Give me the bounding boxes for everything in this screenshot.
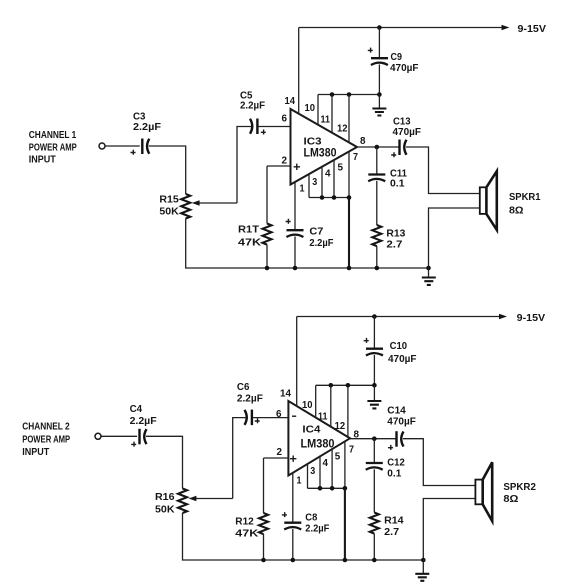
input terminal ch1	[99, 143, 105, 149]
node bus junction C9	[377, 92, 382, 97]
op-amp IC4 LM380	[288, 401, 350, 476]
node gnd dot pin7	[347, 266, 352, 271]
pin 12 stub	[348, 95, 350, 143]
svg-text:1: 1	[300, 183, 305, 195]
node gnd dot speaker	[426, 266, 431, 271]
svg-text:2.2µF: 2.2µF	[309, 237, 334, 249]
wire C7 to ground bus	[294, 237, 296, 269]
svg-text:6: 6	[276, 408, 282, 420]
pin 12 stub	[347, 385, 349, 436]
node bus junction C10	[372, 383, 377, 388]
svg-text:CHANNEL 1: CHANNEL 1	[29, 129, 77, 141]
pins 3-5-7 bus ch2	[308, 487, 345, 489]
capacitor C8	[284, 522, 301, 524]
wire R12 to ground bus	[263, 534, 265, 560]
svg-text:14: 14	[285, 95, 296, 107]
capacitor C5	[250, 119, 252, 134]
node gnd dot C7	[293, 266, 298, 271]
svg-text:5: 5	[338, 161, 344, 173]
pin 1 wire to C7	[294, 182, 296, 229]
svg-text:8: 8	[360, 135, 366, 147]
svg-text:2.2µF: 2.2µF	[240, 100, 266, 112]
node bus junction 12	[346, 383, 351, 388]
svg-text:IC3: IC3	[304, 136, 322, 148]
wire C13 to speaker top	[406, 147, 480, 194]
svg-text:2.2µF: 2.2µF	[133, 121, 162, 133]
svg-text:R16: R16	[155, 491, 175, 503]
pin 2 wire	[264, 457, 289, 459]
node rail-C10 junction	[372, 314, 377, 319]
pin 10 stub	[317, 95, 319, 125]
wire C8 to ground bus	[292, 529, 294, 560]
supply arrow ch1	[502, 25, 510, 31]
potentiometer R15	[181, 194, 190, 219]
capacitor C9	[371, 57, 388, 59]
node bus junction 11	[330, 92, 335, 97]
node output junction	[372, 436, 377, 441]
wire C12 to R14	[373, 469, 375, 512]
svg-text:11: 11	[321, 113, 331, 125]
svg-text:8: 8	[354, 428, 360, 440]
resistor R14 2.7	[370, 513, 379, 534]
capacitor C7	[287, 229, 304, 231]
pin 14 wire to +V rail	[298, 28, 300, 114]
wire rail to C10	[373, 317, 375, 348]
+V rail ch2	[297, 316, 500, 318]
svg-text:10: 10	[302, 399, 313, 411]
svg-text:4: 4	[323, 457, 329, 469]
pin 14 wire to +V rail	[296, 317, 298, 407]
speaker SPKR1	[480, 187, 487, 214]
wire R14 to ground bus	[373, 534, 375, 560]
wire pin2 down to R11	[266, 166, 268, 224]
svg-text:R1T: R1T	[238, 224, 260, 236]
svg-text:47K: 47K	[238, 237, 261, 249]
node bus dot pin7	[347, 195, 352, 200]
plus mark pin 2 input	[290, 456, 296, 462]
svg-text:SPKR2: SPKR2	[503, 481, 536, 493]
resistor R11 47K	[263, 224, 272, 245]
svg-text:470µF: 470µF	[388, 353, 417, 365]
pin 11 stub	[330, 385, 332, 426]
svg-text:2.7: 2.7	[386, 239, 402, 251]
wire speaker bottom to ground	[429, 208, 480, 268]
svg-text:9-15V: 9-15V	[518, 23, 547, 35]
svg-text:0.1: 0.1	[387, 468, 401, 480]
node gnd dot R14	[372, 558, 377, 563]
svg-text:C4: C4	[130, 403, 143, 415]
svg-text:C7: C7	[309, 226, 323, 238]
pin 5 stub	[331, 448, 333, 488]
capacitor C4	[138, 429, 140, 445]
pins 3-5-7 bus ch1	[309, 197, 349, 199]
svg-text:47K: 47K	[235, 528, 258, 540]
wire wiper up to C6	[233, 418, 246, 499]
pin 7 stub	[348, 152, 350, 198]
svg-text:2.7: 2.7	[384, 526, 399, 538]
wire C11 to R13	[376, 181, 378, 225]
svg-text:CHANNEL 2: CHANNEL 2	[22, 420, 70, 432]
pin 3 stub	[307, 463, 309, 488]
wire C3 to R15 corner	[149, 146, 186, 194]
svg-text:12: 12	[335, 420, 346, 432]
node bus dot pin4	[318, 486, 323, 491]
+V rail ch1	[299, 27, 502, 29]
ground below C9	[378, 95, 380, 109]
pin 3 stub	[308, 174, 310, 197]
capacitor C13	[398, 140, 400, 156]
svg-text:50K: 50K	[159, 206, 179, 218]
wire input to C4	[101, 435, 137, 437]
wire C4 to R16 corner	[146, 436, 183, 488]
svg-text:10: 10	[305, 102, 316, 114]
svg-text:4: 4	[325, 168, 331, 180]
supply arrow ch2	[499, 314, 507, 320]
input terminal ch2	[95, 433, 101, 439]
svg-text:C6: C6	[237, 381, 250, 393]
capacitor C6	[245, 410, 247, 425]
wire input to C3	[105, 145, 140, 147]
wire speaker bottom to ground	[423, 499, 475, 561]
svg-text:50K: 50K	[155, 503, 175, 515]
wire pin7 bus to ground bus	[348, 198, 350, 269]
wire R11 to ground bus	[266, 245, 268, 268]
capacitor C12	[366, 462, 383, 464]
ground ch1 bottom	[428, 268, 430, 277]
svg-text:R15: R15	[159, 193, 179, 205]
R15 wiper arrow	[198, 202, 237, 204]
svg-text:470µF: 470µF	[390, 62, 419, 74]
capacitor C11	[368, 173, 385, 175]
pin 11 stub	[331, 95, 333, 133]
op-amp IC3 LM380	[291, 109, 358, 185]
R16 wiper arrow	[195, 498, 233, 500]
wire wiper up to C5	[237, 127, 251, 204]
wire output junction down to C11	[376, 147, 378, 174]
resistor R13 2.7	[372, 225, 381, 246]
wire C9 to bus	[378, 65, 380, 95]
node gnd dot C8	[291, 558, 296, 563]
potentiometer R16	[178, 489, 187, 514]
node output junction	[375, 145, 380, 150]
svg-text:POWER AMP: POWER AMP	[29, 141, 77, 153]
svg-text:LM380: LM380	[301, 438, 335, 450]
svg-text:INPUT: INPUT	[29, 153, 57, 165]
wire output junction down to C12	[373, 439, 375, 462]
ground bus ch1	[186, 219, 429, 269]
wire R13 to ground bus	[376, 246, 378, 268]
wire rail to C9	[378, 28, 380, 58]
pin 4 stub	[319, 455, 321, 488]
wire pin7 bus to ground bus	[344, 488, 346, 560]
ground below C10	[373, 385, 375, 401]
wire C14 to speaker top	[403, 439, 475, 486]
svg-text:2.2µF: 2.2µF	[130, 415, 158, 427]
node bus dot pin4	[320, 195, 325, 200]
node bus junction 12	[347, 92, 352, 97]
wire C5 to pin6	[259, 126, 291, 128]
node gnd dot pin7	[343, 558, 348, 563]
svg-text:SPKR1: SPKR1	[509, 191, 541, 203]
wire pin2 down to R12	[263, 458, 265, 513]
pin 8 output wire	[357, 146, 399, 148]
plus mark pin 2 input	[294, 164, 300, 170]
svg-text:0.1: 0.1	[390, 178, 405, 190]
svg-text:2.2µF: 2.2µF	[305, 522, 330, 534]
capacitor C3	[141, 139, 143, 155]
node bus dot pin5	[332, 195, 337, 200]
node rail-C9 junction	[377, 25, 382, 30]
ground bus ch2	[183, 513, 424, 560]
node gnd dot R13	[375, 266, 380, 271]
svg-text:R12: R12	[235, 516, 254, 528]
svg-text:6: 6	[282, 113, 288, 125]
minus mark pin 6 input	[292, 415, 296, 417]
pin 5 stub	[333, 160, 335, 197]
pin 1 wire to C8	[292, 473, 294, 522]
svg-text:5: 5	[335, 450, 341, 462]
svg-text:8Ω: 8Ω	[509, 204, 524, 216]
pin 2 wire	[267, 165, 291, 167]
svg-text:IC4: IC4	[302, 423, 320, 435]
svg-text:POWER AMP: POWER AMP	[22, 434, 70, 446]
node bus junction 11	[329, 383, 334, 388]
svg-text:8Ω: 8Ω	[503, 493, 518, 505]
ground ch2 bottom	[422, 560, 424, 574]
svg-text:1: 1	[297, 475, 302, 487]
svg-text:2.2µF: 2.2µF	[237, 393, 264, 405]
svg-text:INPUT: INPUT	[22, 446, 50, 458]
pin 8 output wire	[350, 438, 396, 440]
node bus dot pin7	[343, 486, 348, 491]
svg-text:3: 3	[312, 176, 317, 188]
resistor R12 47K	[259, 513, 268, 534]
node bus dot pin5	[330, 486, 335, 491]
svg-text:LM380: LM380	[304, 148, 337, 160]
svg-text:2: 2	[282, 154, 288, 166]
pin 10 stub	[315, 385, 317, 417]
wire C6 to pin6	[253, 417, 288, 419]
pin 7 stub	[344, 442, 346, 489]
svg-text:9-15V: 9-15V	[517, 312, 546, 324]
pins 10-12 bus ch1	[318, 94, 379, 96]
svg-text:R14: R14	[384, 515, 404, 527]
svg-text:C10: C10	[390, 340, 408, 352]
wire C10 to bus	[373, 355, 375, 385]
pins 10-12 bus ch2	[316, 384, 375, 386]
node gnd dot speaker	[421, 558, 426, 563]
capacitor C14	[395, 431, 397, 447]
svg-text:11: 11	[318, 411, 328, 423]
pin 4 stub	[321, 167, 323, 198]
svg-text:7: 7	[353, 151, 358, 163]
speaker SPKR2	[475, 480, 482, 505]
svg-text:2: 2	[277, 446, 283, 458]
node gnd dot R11	[265, 266, 270, 271]
svg-text:470µF: 470µF	[393, 126, 422, 138]
svg-text:14: 14	[280, 388, 291, 400]
node gnd dot R12	[261, 558, 266, 563]
svg-text:7: 7	[349, 444, 354, 456]
svg-text:C9: C9	[391, 51, 403, 63]
svg-text:12: 12	[337, 123, 348, 135]
svg-text:470µF: 470µF	[387, 415, 416, 427]
svg-text:3: 3	[310, 465, 315, 477]
capacitor C10	[366, 348, 383, 350]
